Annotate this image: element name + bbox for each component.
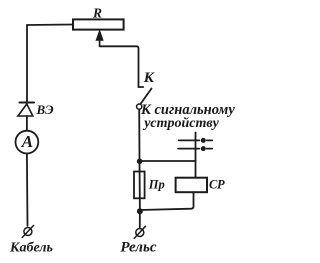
resistor R (73, 19, 124, 29)
contact CP: lower right dash (207, 148, 212, 150)
svg-text:Рельс: Рельс (120, 239, 156, 255)
svg-text:СР: СР (209, 178, 225, 192)
diode VE: cathode bar (20, 102, 35, 104)
switch K: fixed contact tick (138, 86, 143, 88)
junction B dot (137, 208, 143, 214)
fuse Pr (134, 172, 145, 199)
relay coil CP (176, 178, 207, 193)
wire: relay bottom lead to bottom wire (140, 192, 194, 210)
wire: left vertical down to diode (26, 25, 28, 102)
wiper arrow of R (99, 38, 101, 46)
junction A dot (137, 159, 143, 165)
svg-text:Пр: Пр (148, 178, 165, 192)
svg-text:А: А (21, 132, 33, 151)
svg-text:К: К (143, 70, 155, 86)
wire: junction A to contact branch (140, 160, 196, 162)
wire: down to relay coil (195, 161, 197, 178)
wire: main vertical through fuse (139, 161, 141, 211)
terminal: cable slash (22, 225, 33, 237)
terminal: cable circle (24, 228, 32, 236)
contact CP: lower dot (201, 146, 206, 151)
terminal: rail slash (134, 226, 145, 238)
svg-text:Кабель: Кабель (9, 240, 53, 255)
svg-text:R: R (92, 5, 102, 20)
wire: top horizontal from left branch to resistor (27, 24, 73, 27)
wire: junction B down to rail terminal (139, 211, 141, 227)
svg-text:ВЭ: ВЭ (36, 102, 55, 117)
switch K: blade (141, 89, 152, 104)
wire: ammeter to cable terminal (26, 154, 29, 226)
contact CP: upper right dash (207, 139, 212, 141)
diode VE: triangle (18, 104, 33, 116)
wire: diode to ammeter (26, 116, 28, 131)
contact CP: upper bar (179, 139, 200, 141)
ammeter A: circle (16, 131, 39, 154)
wire: switch down to junction A (138, 109, 140, 161)
switch K: pivot circle (137, 104, 142, 109)
contact CP: lower bar (178, 148, 199, 150)
contact CP: vertical lead (195, 133, 197, 162)
svg-text:устройству: устройству (142, 116, 219, 131)
terminal: rail circle (136, 229, 144, 237)
wire: wiper to switch (horizontal then down) (100, 46, 139, 87)
contact CP: upper dot (201, 138, 206, 143)
